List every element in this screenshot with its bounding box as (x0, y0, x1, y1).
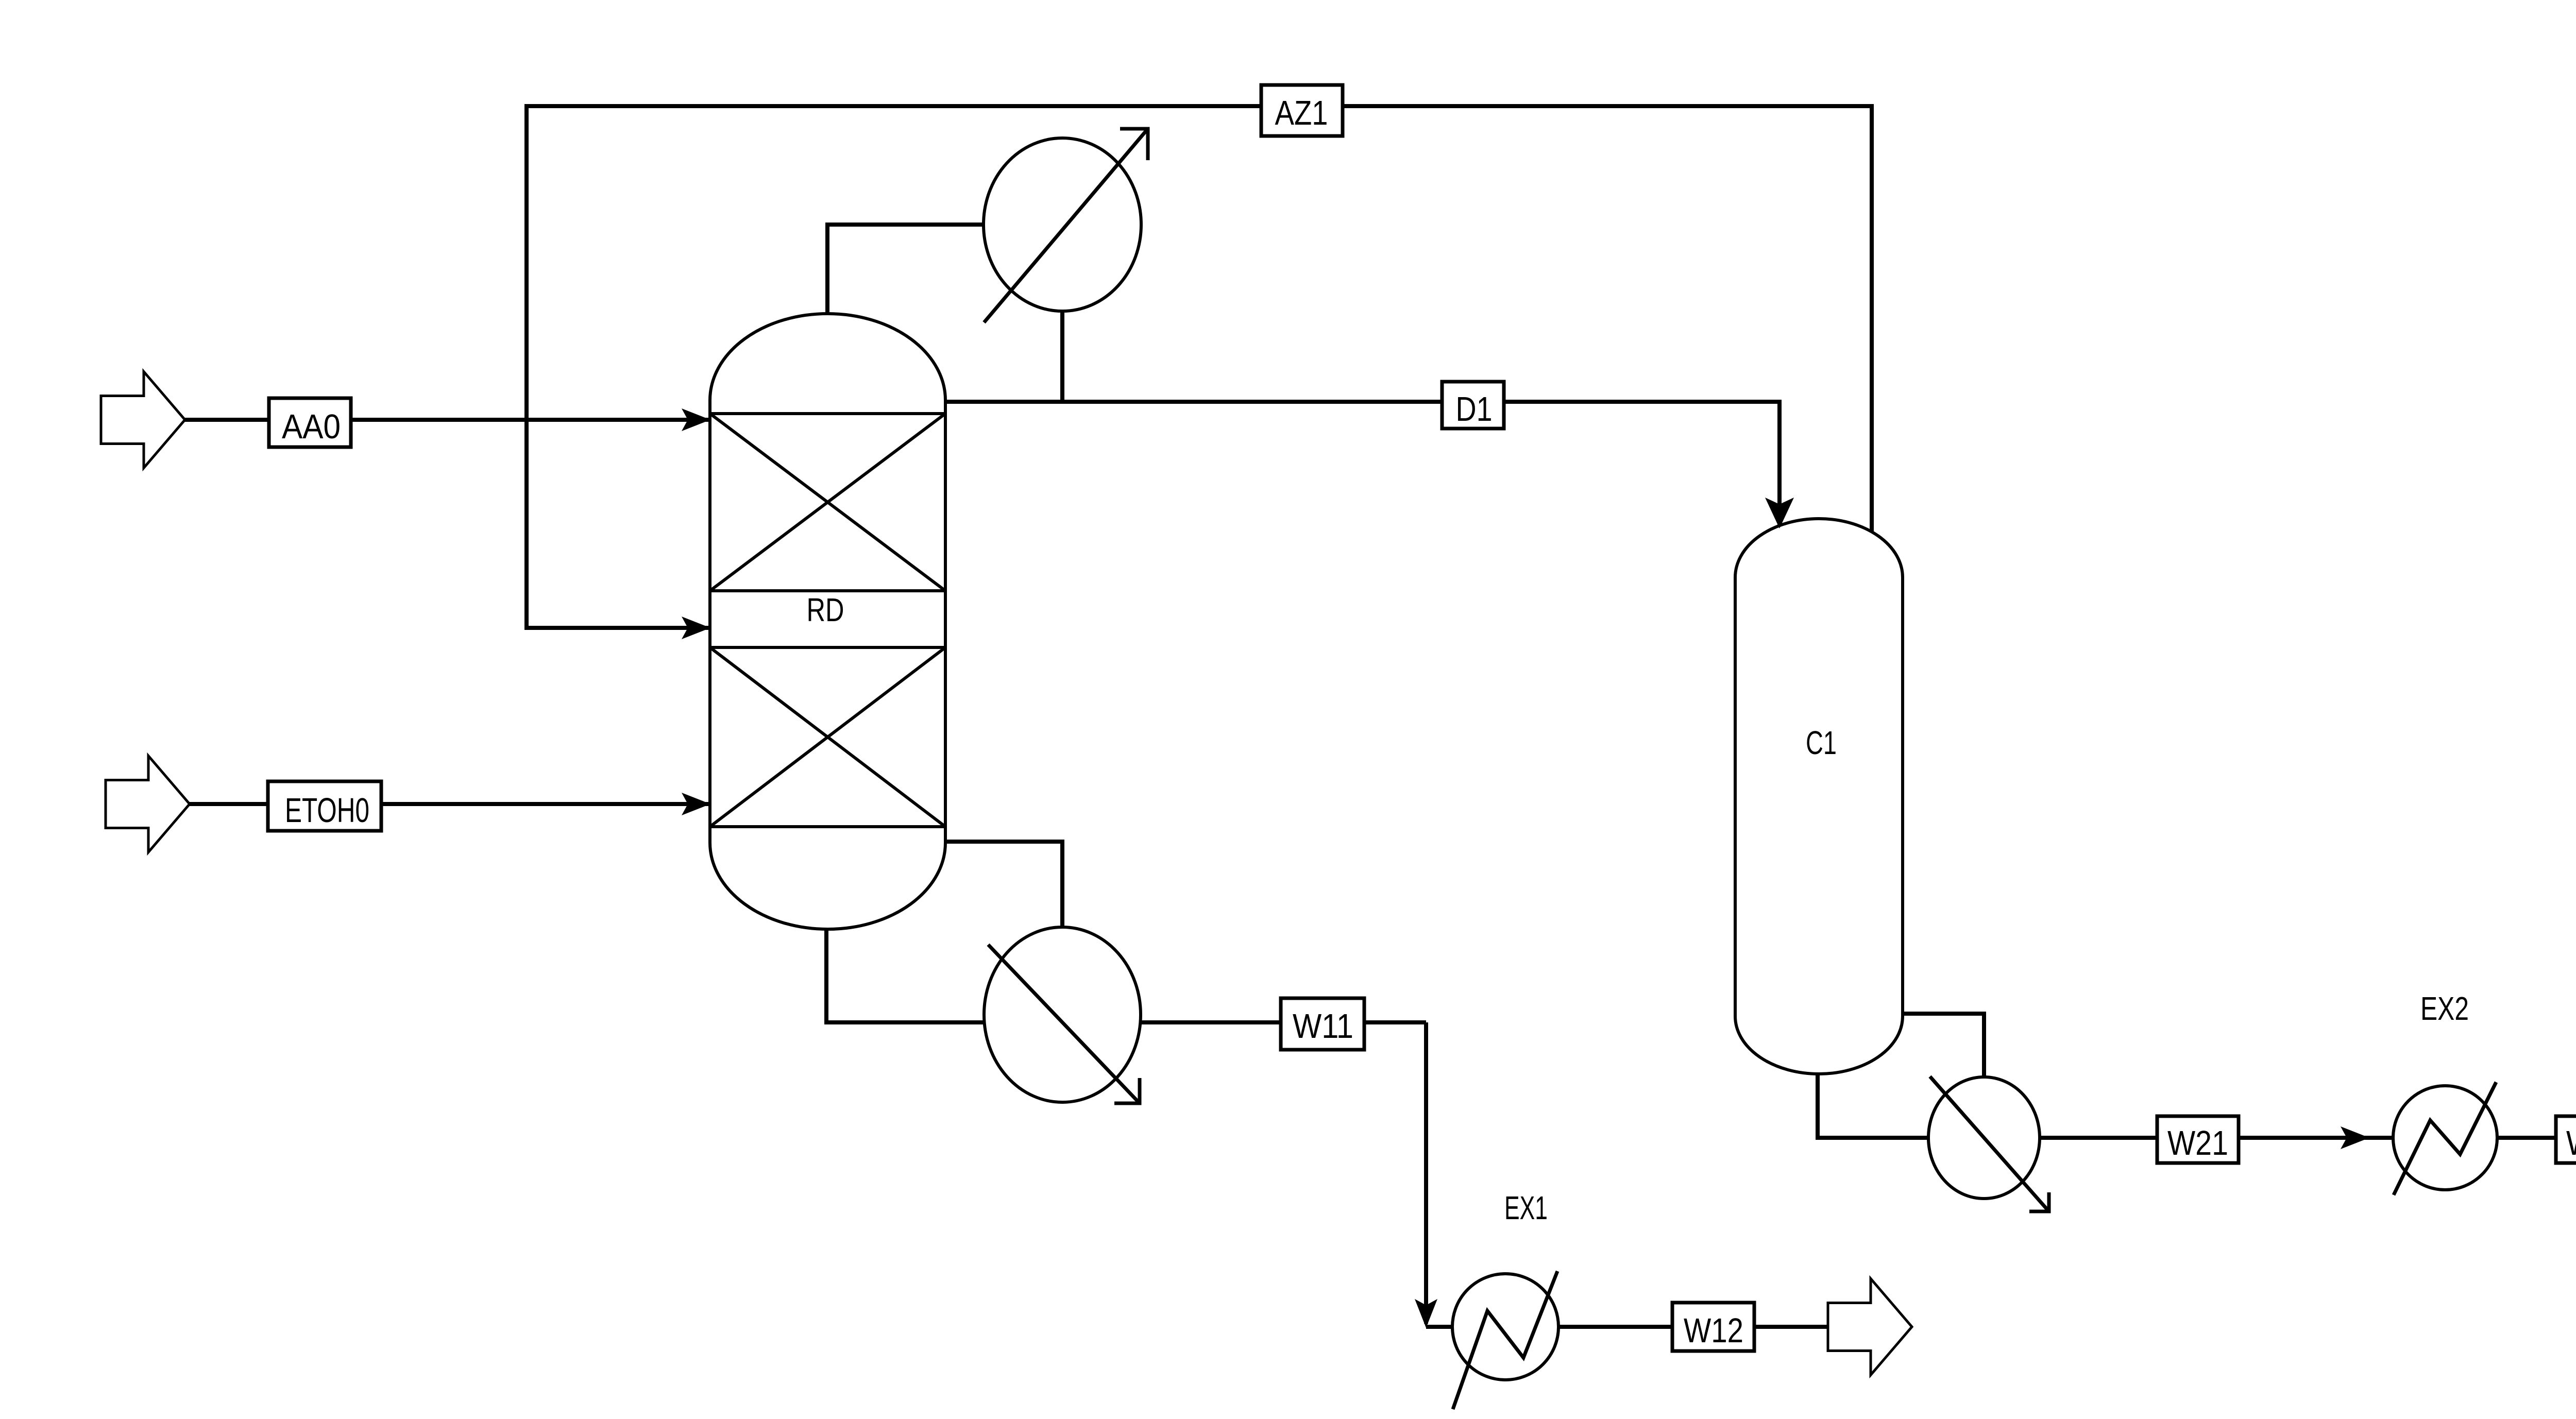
wire corner into EX1 (1426, 1325, 1453, 1329)
arrowhead AA0 into RD (682, 408, 710, 431)
input block arrow IN1 (AA0 feed) (101, 372, 185, 468)
wire W21 line (2040, 1136, 2393, 1140)
arrowhead D1 into C1 top (1765, 498, 1794, 528)
wire C1 vapor return to cooler (1903, 1014, 1984, 1077)
arrowhead AZ1 into RD (682, 617, 710, 639)
wire RD bottoms draw to reboiler (826, 929, 984, 1022)
wire ETOH0 feed line (190, 802, 709, 806)
svg-text:W21: W21 (2167, 1124, 2228, 1162)
stream box D1 (1442, 382, 1504, 429)
output block arrow OUT1 (W12 product) (1828, 1279, 1912, 1375)
wire W22 line (2497, 1136, 2576, 1140)
stream box W21 (2157, 1116, 2239, 1163)
arrowhead W21 into EX2 (2341, 1126, 2369, 1149)
wire W11 drop to EX1 (1424, 1022, 1428, 1324)
reboiler circle on RD (984, 927, 1141, 1102)
svg-text:W22: W22 (2566, 1124, 2576, 1162)
svg-text:C1: C1 (1806, 724, 1837, 761)
arrowhead W11 into EX1 corner (1415, 1299, 1437, 1328)
condenser energy arrow (984, 129, 1148, 322)
wire C1 bottoms draw to cooler (1818, 1074, 1928, 1138)
svg-text:W11: W11 (1293, 1007, 1353, 1046)
cooler energy arrow (1930, 1076, 2049, 1211)
reboiler energy arrow (988, 945, 1140, 1103)
stream box W11 (1281, 998, 1364, 1050)
svg-text:ETOH0: ETOH0 (285, 791, 369, 830)
input block arrow IN2 (ETOH0 feed) (106, 756, 190, 852)
wire AA0 feed line (185, 418, 709, 422)
stream box AA0 (269, 398, 351, 447)
column RD internal tray lines (710, 414, 945, 827)
heat exchanger EX1 zigzag (1453, 1271, 1557, 1409)
column RD packing X section 2 (710, 647, 945, 827)
column C1 shell (1735, 519, 1903, 1074)
stream box W22 (2556, 1116, 2576, 1163)
wire condenser outlet drop to D1 line (1060, 311, 1064, 402)
column RD packing X section 1 (710, 414, 945, 591)
stream box W12 (1672, 1303, 1754, 1351)
svg-text:EX2: EX2 (2420, 990, 2469, 1027)
wire D1 distillate line to C1 (945, 402, 1780, 526)
cooler circle on C1 (1928, 1077, 2040, 1199)
svg-text:AA0: AA0 (282, 407, 341, 446)
svg-text:W12: W12 (1684, 1311, 1743, 1350)
svg-text:D1: D1 (1456, 390, 1493, 429)
stream box AZ1 (1261, 85, 1343, 136)
heat exchanger EX1 circle (1452, 1274, 1558, 1380)
svg-text:EX1: EX1 (1504, 1189, 1548, 1226)
condenser circle on RD (984, 138, 1141, 311)
svg-text:AZ1: AZ1 (1275, 94, 1328, 132)
wire W12 line (1558, 1325, 1828, 1329)
wire W11 bottoms product line (1141, 1020, 1426, 1024)
stream box ETOH0 (268, 781, 381, 831)
arrowhead ETOH0 into RD (682, 793, 710, 815)
wire RD top vapor riser to condenser (827, 225, 984, 314)
svg-text:RD: RD (807, 591, 844, 628)
heat exchanger EX2 circle (2393, 1086, 2497, 1190)
wire RD bottom vapor return to reboiler (945, 842, 1062, 927)
heat exchanger EX2 zigzag (2394, 1082, 2496, 1195)
column RD shell (710, 314, 945, 929)
wire AZ1 recycle: C1 top up, left, down, into RD middle (527, 106, 1872, 628)
